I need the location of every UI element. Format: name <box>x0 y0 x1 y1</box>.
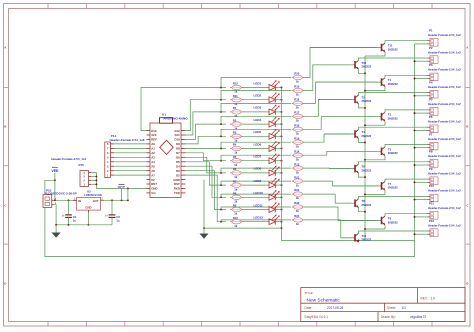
svg-text:Header-Female-2.54_1x2: Header-Female-2.54_1x2 <box>428 223 461 227</box>
svg-text:Header-Female-2.54_1x2: Header-Female-2.54_1x2 <box>428 154 461 158</box>
svg-text:R21: R21 <box>294 175 300 179</box>
svg-text:2N2222: 2N2222 <box>388 220 398 224</box>
LED LED9 <box>254 178 280 188</box>
wire P6 pin2 to VEE bus <box>414 129 427 131</box>
resistor R1 1k <box>230 106 242 118</box>
svg-text:P5: P5 <box>429 98 433 102</box>
svg-text:P9: P9 <box>429 167 433 171</box>
wire emitter T4 to bus <box>359 138 366 143</box>
svg-text:(+: (+ <box>62 213 65 217</box>
resistor R13 1k <box>292 162 304 174</box>
wires P14 to A0-A7 <box>114 144 147 175</box>
LED LED4 <box>254 117 280 127</box>
wire base resistor to T row 8 <box>304 167 351 170</box>
resistor R3 1k <box>230 131 242 143</box>
wire base resistor to T row 4 <box>304 99 351 116</box>
voltage regulator U2 L7805CV-DG <box>73 189 104 212</box>
svg-text:LED8: LED8 <box>254 167 262 171</box>
transistor T11 2N2222 <box>380 43 398 52</box>
svg-text:2N2222: 2N2222 <box>388 117 398 121</box>
svg-text:2N2222: 2N2222 <box>361 168 371 172</box>
svg-text:A4: A4 <box>151 160 155 164</box>
wire D13 to LED1 row <box>141 88 226 131</box>
wire D7 to LED7 row <box>186 153 227 161</box>
power flag VCC <box>118 185 126 201</box>
resistor R14 1k <box>292 149 304 161</box>
svg-text:Header-Female-2.54_1x2: Header-Female-2.54_1x2 <box>428 50 461 54</box>
wire emitter T2 to bus <box>359 104 366 109</box>
wire branch row 12 to base resistor <box>220 220 291 223</box>
wire collector T3 to P5 <box>385 110 427 112</box>
svg-text:A6: A6 <box>151 169 155 173</box>
header P15 Header-Female-2.54_1x4 <box>51 157 91 187</box>
wire right ground rail <box>203 227 282 229</box>
header P12 Header-Female-2.54_1x2 <box>427 219 461 237</box>
svg-text:Vin: Vin <box>151 191 156 195</box>
svg-text:LED6: LED6 <box>254 142 262 146</box>
wire base T row 2 <box>313 64 354 66</box>
wire branch row 9 to base resistor <box>220 181 291 186</box>
wire LED cathode rail <box>281 88 283 229</box>
wire base T row 9 <box>332 185 380 187</box>
header P10 Header-Female-2.54_1x2 <box>427 184 461 202</box>
svg-text:1u: 1u <box>116 219 120 223</box>
header P14 Header-Female 2.54_1x8 <box>105 134 145 177</box>
svg-text:1k: 1k <box>296 183 300 187</box>
svg-text:D12: D12 <box>174 129 180 133</box>
transistor T5 2N2222 <box>380 147 398 156</box>
svg-text:D8: D8 <box>176 147 180 151</box>
wire D8 to LED6 row <box>186 147 227 149</box>
wire U2 GND down <box>87 213 89 226</box>
transistor T6 2N2222 <box>354 164 372 173</box>
svg-text:R8: R8 <box>233 192 237 196</box>
wire branch row 10 to base resistor <box>220 194 291 198</box>
wire branch row 6 to base resistor <box>220 142 291 149</box>
wire base T row 11 <box>338 220 380 222</box>
wire P10 pin2 to VEE bus <box>414 199 427 201</box>
LED LED12 <box>254 215 280 225</box>
connector P13 PLDB2EDGVC-5.08-2P <box>43 188 77 207</box>
wire base resistor to T row 1 <box>304 48 378 78</box>
svg-text:P11: P11 <box>429 202 434 206</box>
svg-text:R10: R10 <box>233 216 239 220</box>
resistor R12 1k <box>230 82 242 94</box>
capacitor C1 1u <box>62 200 77 225</box>
svg-text:RXD: RXD <box>174 187 180 191</box>
wire base resistor to T row 3 <box>304 82 378 103</box>
svg-text:R24: R24 <box>294 214 300 218</box>
svg-text:2N2222: 2N2222 <box>388 151 398 155</box>
wire <box>275 172 282 174</box>
svg-text:R3: R3 <box>233 131 237 135</box>
svg-text:1k: 1k <box>296 144 300 148</box>
wire P3 pin2 to VEE bus <box>414 78 427 80</box>
wire branch row 7 to base resistor <box>220 155 291 161</box>
wire <box>275 184 282 186</box>
resistor R2 1k <box>230 118 242 130</box>
svg-text:D3: D3 <box>176 169 180 173</box>
svg-text:P8: P8 <box>429 150 433 154</box>
svg-text:LED1: LED1 <box>254 81 262 85</box>
wire emitter T11 to bus <box>365 52 385 56</box>
LED LED10 <box>254 190 280 200</box>
transistor T2 2N2222 <box>354 95 372 104</box>
svg-text:D4: D4 <box>176 164 180 168</box>
svg-text:1k: 1k <box>296 106 300 110</box>
wire collector T10 to P2 <box>359 58 428 60</box>
wire P5 pin2 to VEE bus <box>414 112 427 114</box>
svg-text:TITLE:: TITLE: <box>305 291 314 295</box>
wire emitter T9 to bus <box>364 225 385 230</box>
wire <box>275 111 282 113</box>
wire branch row 1 to base resistor <box>220 78 291 89</box>
wire branch row 3 to base resistor <box>220 103 291 112</box>
resistor R20 1k <box>292 72 304 84</box>
header P1 Header-Female-2.54_1x2 <box>427 29 461 47</box>
wire D12 to LED2 row <box>186 100 227 131</box>
LED LED7 <box>254 154 280 164</box>
LED LED2 <box>254 93 280 103</box>
svg-text:R9: R9 <box>233 204 237 208</box>
svg-text:LED7: LED7 <box>254 155 262 159</box>
wire D5 to LED9 row <box>186 162 227 185</box>
wire base resistor to T row 7 <box>304 151 378 155</box>
LED LED6 <box>254 141 280 151</box>
svg-text:GND: GND <box>173 178 179 182</box>
svg-text:R7: R7 <box>233 179 237 183</box>
header P4 Header-Female-2.54_1x2 <box>427 80 461 98</box>
wire base T row 3 <box>316 81 381 83</box>
header P6 Header-Female-2.54_1x2 <box>427 115 461 133</box>
wire <box>243 196 270 198</box>
svg-text:Header-Female-2.54_1x2: Header-Female-2.54_1x2 <box>428 206 461 210</box>
wire emitter bus <box>364 56 366 241</box>
wire P4 pin2 to VEE bus <box>414 95 427 97</box>
svg-text:A2: A2 <box>151 151 155 155</box>
wire <box>243 111 270 113</box>
svg-text:Header-Female-2.54_1x2: Header-Female-2.54_1x2 <box>428 68 461 72</box>
svg-text:P3: P3 <box>429 63 433 67</box>
svg-text:A0: A0 <box>151 142 155 146</box>
wire collector T8 to P10 <box>359 196 428 198</box>
wire Arduino GND to rail <box>203 180 205 229</box>
svg-text:1k: 1k <box>296 93 300 97</box>
svg-text:P15: P15 <box>79 163 85 167</box>
svg-text:P6: P6 <box>429 115 433 119</box>
svg-text:2N2222: 2N2222 <box>361 65 371 69</box>
resistor R15 1k <box>292 136 304 148</box>
svg-text:Header-Female-2.54_1x4: Header-Female-2.54_1x4 <box>51 157 86 161</box>
wire VEE bus loop <box>45 44 415 257</box>
wire branch row 8 to base resistor <box>220 168 291 174</box>
wire base T row 8 <box>330 168 354 170</box>
transistor T12 2N2222 <box>354 233 372 242</box>
svg-text:A7: A7 <box>151 173 155 177</box>
resistor R4 1k <box>230 143 242 155</box>
wire ground return bottom <box>282 228 415 240</box>
svg-text:Header-Female-2.54_1x2: Header-Female-2.54_1x2 <box>428 85 461 89</box>
wire base T row 12 <box>341 237 354 239</box>
svg-text:GND: GND <box>151 187 157 191</box>
wire <box>243 148 270 150</box>
power flag VEE <box>51 167 59 180</box>
wire collector T2 to P4 <box>359 93 428 95</box>
wire <box>243 99 270 101</box>
wire P8 pin2 to VEE bus <box>414 164 427 166</box>
resistor R16 1k <box>292 124 304 136</box>
wire P2 pin2 to VEE bus <box>414 60 427 62</box>
wire P15 pin chain <box>91 173 97 189</box>
svg-text:P1: P1 <box>429 29 433 33</box>
resistor R24 1k <box>292 214 304 226</box>
wire collector T11 to P1 <box>385 41 427 43</box>
svg-text:(+: (+ <box>105 213 108 217</box>
svg-text:P10: P10 <box>429 184 435 188</box>
wire <box>243 184 270 186</box>
svg-text:Header-Female 2.54_1x8: Header-Female 2.54_1x8 <box>110 138 145 142</box>
svg-text:Sheet:: Sheet: <box>387 306 396 310</box>
svg-text:PLDB2EDGVC-5.08-2P: PLDB2EDGVC-5.08-2P <box>45 191 77 195</box>
svg-text:LED9: LED9 <box>254 179 262 183</box>
resistor R22 1k <box>292 188 304 200</box>
resistor R17 1k <box>292 111 304 123</box>
svg-text:R17: R17 <box>294 111 300 115</box>
wire D2 to LED12 row <box>186 175 227 222</box>
svg-text:1k: 1k <box>296 80 300 84</box>
wire D9 to LED5 row <box>186 136 227 144</box>
svg-text:R13: R13 <box>294 162 300 166</box>
svg-text:LED2: LED2 <box>254 94 262 98</box>
svg-text:A5: A5 <box>151 164 155 168</box>
wire collector T1 to P3 <box>385 75 427 77</box>
svg-text:OUT: OUT <box>93 199 99 203</box>
svg-text:1k: 1k <box>234 224 238 228</box>
wire D4 to LED10 row <box>186 166 227 197</box>
header P9 Header-Female-2.54_1x2 <box>427 167 461 185</box>
wire base resistor to T row 10 <box>304 194 351 203</box>
resistor R7 1k <box>230 179 242 191</box>
wire base T row 1 <box>310 47 380 49</box>
resistor R5 1k <box>230 155 242 167</box>
wire P9 pin2 to VEE bus <box>414 181 427 183</box>
wire branch row 5 to base resistor <box>220 129 291 137</box>
svg-text:Header-Female-2.54_1x2: Header-Female-2.54_1x2 <box>428 120 461 124</box>
resistor R19 1k <box>292 85 304 97</box>
svg-text:Header-Female-2.54_1x2: Header-Female-2.54_1x2 <box>428 137 461 141</box>
wire <box>275 221 282 223</box>
wire VCC node to Arduino <box>96 187 146 200</box>
wire P13 pin2 to U2 IN <box>54 199 77 201</box>
transistor T8 2N2222 <box>354 199 372 208</box>
svg-text:R19: R19 <box>294 85 300 89</box>
wire <box>275 209 282 211</box>
header P2 Header-Female-2.54_1x2 <box>427 46 461 64</box>
svg-text:R14: R14 <box>294 149 300 153</box>
svg-text:IN: IN <box>78 199 81 203</box>
svg-text:R12: R12 <box>233 82 239 86</box>
svg-text:2N2222: 2N2222 <box>361 203 371 207</box>
resistor R9 1k <box>230 204 242 216</box>
svg-text:R11: R11 <box>233 94 238 98</box>
wire base resistor to T row 2 <box>304 65 351 91</box>
wire emitter T3 to bus <box>364 121 385 126</box>
transistor T9 2N2222 <box>380 216 398 225</box>
header P5 Header-Female-2.54_1x2 <box>427 98 461 116</box>
svg-text:LED12: LED12 <box>254 216 264 220</box>
wire P1 pin2 to VEE bus <box>415 43 428 45</box>
wire <box>243 221 270 223</box>
wire U2 OUT rail <box>100 199 128 201</box>
wire emitter T5 to bus <box>364 156 385 161</box>
wire base resistor to T row 12 <box>304 220 351 238</box>
svg-text:2N2222: 2N2222 <box>388 82 398 86</box>
wire <box>275 135 282 137</box>
wire P11 pin2 to VEE bus <box>414 216 427 218</box>
wire base T row 7 <box>327 150 381 152</box>
svg-text:Drawn By:: Drawn By: <box>381 315 396 319</box>
wire <box>243 160 270 162</box>
ground symbol right <box>199 228 208 239</box>
svg-text:1k: 1k <box>296 119 300 123</box>
wire emitter T6 to bus <box>359 173 366 178</box>
resistor R8 1k <box>230 192 242 204</box>
svg-text:veguillas73: veguillas73 <box>410 315 426 319</box>
svg-text:LED11: LED11 <box>254 203 264 207</box>
svg-text:D5: D5 <box>176 160 180 164</box>
transistor T10 2N2222 <box>354 60 372 69</box>
header P3 Header-Female-2.54_1x2 <box>427 63 461 81</box>
svg-text:R2: R2 <box>233 118 237 122</box>
resistor R10 1k <box>230 216 242 228</box>
svg-text:L7805CV-DG: L7805CV-DG <box>84 193 103 197</box>
svg-text:2N2222: 2N2222 <box>388 186 398 190</box>
wire emitter T8 to bus <box>359 208 366 213</box>
svg-text:1k: 1k <box>296 209 300 213</box>
wire base T row 5 <box>321 116 380 118</box>
svg-text:2N2222: 2N2222 <box>361 134 371 138</box>
wire D11 to LED3 row <box>186 112 227 135</box>
wire <box>243 123 270 125</box>
wire collector T12 to P12 <box>359 231 428 233</box>
wire emitter T12 to bus <box>358 240 360 243</box>
transistor T4 2N2222 <box>354 130 372 139</box>
svg-text:Header-Female-2.54_1x2: Header-Female-2.54_1x2 <box>428 171 461 175</box>
wire base resistor to T row 5 <box>304 117 378 130</box>
wire branch row 2 to base resistor <box>220 91 291 101</box>
svg-text:LED4: LED4 <box>254 118 262 122</box>
svg-text:D10: D10 <box>174 138 180 142</box>
transistor T7 2N2222 <box>380 182 398 191</box>
svg-text:LED3: LED3 <box>254 106 262 110</box>
svg-text:D6: D6 <box>176 156 180 160</box>
wire collector T9 to P11 <box>385 214 427 216</box>
wire <box>275 148 282 150</box>
wire emitter T1 to bus <box>364 87 385 92</box>
resistor R6 1k <box>230 167 242 179</box>
svg-text:D9: D9 <box>176 142 180 146</box>
svg-text:R16: R16 <box>294 124 300 128</box>
svg-text:GND: GND <box>85 206 91 210</box>
svg-text:P7: P7 <box>429 132 433 136</box>
header P7 Header-Female-2.54_1x2 <box>427 132 461 150</box>
svg-text:D2: D2 <box>176 173 180 177</box>
svg-text:P12: P12 <box>429 219 435 223</box>
wire <box>243 135 270 137</box>
wire base resistor to T row 11 <box>304 207 378 221</box>
wire P7 pin2 to VEE bus <box>414 147 427 149</box>
svg-text:D7: D7 <box>176 151 180 155</box>
svg-text:P4: P4 <box>429 80 433 84</box>
wire base resistor to T row 9 <box>304 181 378 186</box>
transistor T3 2N2222 <box>380 112 398 121</box>
svg-text:LED5: LED5 <box>254 130 262 134</box>
svg-text:R15: R15 <box>294 136 300 140</box>
svg-text:R22: R22 <box>294 188 300 192</box>
resistor R18 1k <box>292 98 304 110</box>
wire base T row 6 <box>324 133 354 135</box>
wire emitter T10 to bus <box>359 69 366 74</box>
wire <box>275 160 282 162</box>
wire <box>243 87 270 89</box>
svg-text:RST: RST <box>174 182 180 186</box>
svg-text:VEE: VEE <box>51 169 59 173</box>
capacitor C2 1u <box>105 200 120 225</box>
LED LED11 <box>254 202 280 212</box>
svg-text:ARDUINO NANO: ARDUINO NANO <box>163 116 188 120</box>
svg-text:R6: R6 <box>233 167 237 171</box>
svg-text:1u: 1u <box>73 219 77 223</box>
svg-text:A1: A1 <box>151 147 155 151</box>
wire D3 to LED11 row <box>186 171 227 210</box>
wire <box>243 209 270 211</box>
wire <box>275 123 282 125</box>
title block <box>301 288 465 322</box>
svg-text:REF: REF <box>151 138 157 142</box>
svg-text:1k: 1k <box>296 157 300 161</box>
wire base resistor to T row 6 <box>304 134 351 142</box>
wire base T row 4 <box>318 98 353 100</box>
resistor R21 1k <box>292 175 304 187</box>
wire P12 pin2 to VEE bus <box>414 233 427 235</box>
svg-text:1k: 1k <box>296 132 300 136</box>
transistor T1 2N2222 <box>380 78 398 87</box>
LED LED5 <box>254 129 280 139</box>
header P8 Header-Female-2.54_1x2 <box>427 150 461 168</box>
resistor R11 1k <box>230 94 242 106</box>
wire collector T5 to P7 <box>385 145 427 147</box>
svg-text:R20: R20 <box>294 72 300 76</box>
svg-text:1k: 1k <box>296 222 300 226</box>
wire <box>275 87 282 89</box>
wire left ground rail <box>55 224 112 226</box>
svg-text:New Schematic: New Schematic <box>307 297 341 303</box>
wire collector T7 to P9 <box>385 179 427 181</box>
svg-text:Date:: Date: <box>305 306 313 310</box>
header P11 Header-Female-2.54_1x2 <box>427 202 461 220</box>
LED LED3 <box>254 105 280 115</box>
wire D6 to LED8 row <box>186 157 227 173</box>
svg-text:RST: RST <box>151 182 157 186</box>
wire branch row 11 to base resistor <box>220 207 291 210</box>
wire collector T6 to P8 <box>359 162 428 164</box>
svg-text:2017-09-26: 2017-09-26 <box>327 306 344 310</box>
svg-text:TXD: TXD <box>174 191 180 195</box>
svg-text:P2: P2 <box>429 46 433 50</box>
svg-text:R1: R1 <box>233 106 237 110</box>
svg-text:1.0: 1.0 <box>431 297 436 301</box>
svg-text:3V3: 3V3 <box>151 133 157 137</box>
